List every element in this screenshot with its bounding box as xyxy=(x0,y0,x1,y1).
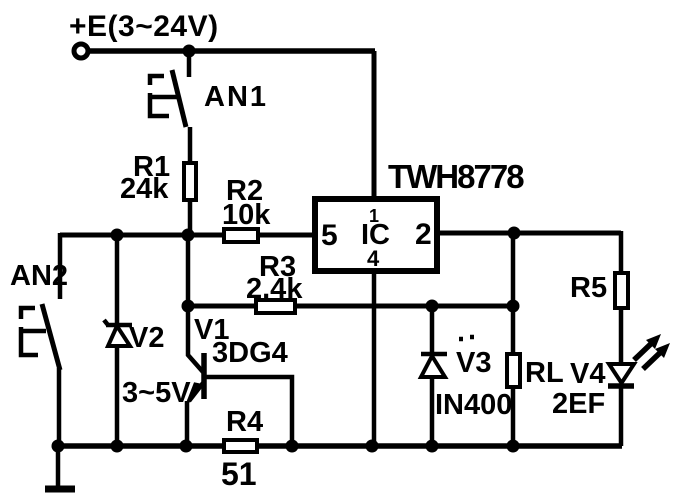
wire AN1 to R1 to rail A xyxy=(188,127,193,235)
junction dot bottom / ground xyxy=(52,440,65,453)
svg-text:5: 5 xyxy=(321,219,338,252)
wire V4 to bottom rail corner xyxy=(619,386,624,446)
switch AN1 lever xyxy=(172,70,186,127)
wire top rail +E xyxy=(88,48,375,54)
transistor V1 emitter arrow xyxy=(188,384,200,402)
resistor R2 xyxy=(224,229,258,242)
wire IC pin 1 from top rail xyxy=(372,51,377,199)
wire left branch down to AN2 xyxy=(58,233,63,299)
wire rail B xyxy=(188,304,513,309)
svg-text:3DG4: 3DG4 xyxy=(212,337,288,369)
svg-text:V4: V4 xyxy=(570,358,605,390)
svg-text:R5: R5 xyxy=(570,272,607,304)
wire RL branch xyxy=(511,306,516,446)
svg-text:R4: R4 xyxy=(226,406,263,438)
switch AN1 actuator bracket xyxy=(150,76,177,116)
resistor R1 xyxy=(184,163,196,200)
wire IC pin 4 to bottom rail xyxy=(372,271,377,446)
svg-text:V2: V2 xyxy=(129,322,164,354)
svg-text:1: 1 xyxy=(369,206,379,226)
wire bottom rail xyxy=(58,443,622,449)
junction dot rail B / V3 xyxy=(426,300,439,313)
transistor V1 base bar xyxy=(201,353,207,399)
wire V1 emitter to bottom rail xyxy=(185,401,190,446)
switch AN2 actuator bracket xyxy=(21,308,46,355)
junction dot bottom / V2 xyxy=(111,440,124,453)
junction dot bottom / pin 4 xyxy=(366,440,379,453)
junction dot rail A / V2 xyxy=(111,229,124,242)
LED V4 cathode bar xyxy=(608,383,634,389)
transistor V1 collector wire xyxy=(188,306,203,372)
diode V3 triangle xyxy=(421,356,445,377)
svg-text:2EF: 2EF xyxy=(552,388,605,420)
junction dot bottom / emitter xyxy=(180,440,193,453)
junction dot rail B / RL xyxy=(507,300,520,313)
wire V3 branch xyxy=(430,306,435,446)
transistor V1 emitter xyxy=(189,383,203,401)
svg-text:2: 2 xyxy=(415,218,432,251)
junction dot bottom / RL xyxy=(507,440,520,453)
junction dot bottom / V3 xyxy=(426,440,439,453)
svg-text:IN400: IN400 xyxy=(435,389,512,421)
svg-text:3~5V: 3~5V xyxy=(122,377,191,409)
wire V2 branch xyxy=(115,235,120,446)
svg-text:RL: RL xyxy=(525,357,564,389)
wire AN1 top stub xyxy=(187,51,192,77)
wire R1 node down to rail B xyxy=(186,235,191,306)
junction dot bottom / base wire xyxy=(286,440,299,453)
wire IC pin 2 rail xyxy=(437,231,621,236)
LED V4 emission arrow 1 xyxy=(634,334,661,360)
junction dot pin 2 rail xyxy=(508,227,521,240)
wire pin2 node down to rail B xyxy=(511,233,516,306)
junction dot rail A / R1 xyxy=(182,229,195,242)
svg-text:24k: 24k xyxy=(120,173,169,205)
svg-text:4: 4 xyxy=(367,246,380,271)
diode V2 cathode bar xyxy=(104,320,132,325)
resistor R4 xyxy=(224,440,257,452)
resistor R5 xyxy=(615,273,628,308)
ground stem xyxy=(56,446,61,487)
switch AN2 lever xyxy=(42,304,60,370)
svg-text:+E(3~24V): +E(3~24V) xyxy=(69,10,219,43)
wire V1 base to node after R4 xyxy=(205,377,292,446)
svg-text:51: 51 xyxy=(221,456,257,492)
wire AN2 to bottom rail xyxy=(57,368,62,446)
label V3 umlaut dots xyxy=(459,337,474,339)
svg-text:2.4k: 2.4k xyxy=(246,273,303,305)
svg-text:AN1: AN1 xyxy=(204,81,268,113)
svg-text:TWH8778: TWH8778 xyxy=(388,158,524,195)
svg-text:AN2: AN2 xyxy=(10,260,68,292)
junction dot top rail xyxy=(183,45,196,58)
resistor RL xyxy=(507,354,520,387)
wire R5/V4 branch top corner xyxy=(619,231,624,364)
op-amp IC TWH8778 box xyxy=(315,199,437,271)
junction dot rail B left xyxy=(182,300,195,313)
wire rail A xyxy=(60,233,315,238)
diode V3 cathode bar xyxy=(421,352,447,357)
svg-text:V3: V3 xyxy=(456,347,491,379)
LED V4 emission arrow 2 xyxy=(643,343,670,369)
LED V4 triangle xyxy=(609,364,634,383)
resistor R3 xyxy=(256,300,295,313)
ground bar xyxy=(45,486,75,493)
node +E terminal xyxy=(74,44,88,58)
diode V2 triangle xyxy=(108,326,130,346)
svg-text:10k: 10k xyxy=(222,199,271,231)
